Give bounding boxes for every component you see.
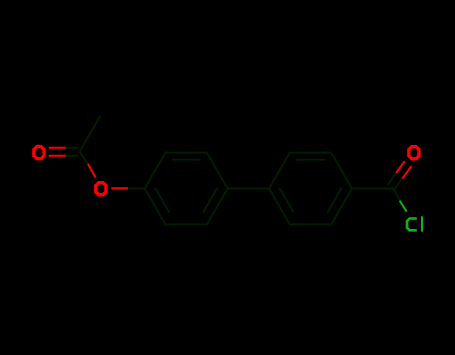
C=O left carbon-side halves [66,147,78,149]
biphenyl bond [228,188,269,190]
bond O(ester)-C1 oxygen half [111,187,128,189]
bond C(methyl)-C(carbonyl left) [80,116,101,152]
ring 1 inner double bond lower-left [155,188,170,213]
atom label O ketone left [34,147,44,159]
bond C(carbonyl left)-O(ester) oxygen half [88,164,96,178]
C=O left oxygen-side halves [49,147,66,149]
ring 2 inner double bond lower-right [327,188,342,213]
atom label Cl : letter l [421,216,423,231]
bond C(carbonyl left)-O(ester) carbon half [80,152,88,164]
bond O(ester)-C1 carbon half [128,187,145,189]
carbon skeleton (dark green) [66,116,402,224]
bond C(carbonyl right)-Cl carbon half [394,189,400,201]
C=O right carbon-side halves [388,173,396,185]
ring 1 inner double bond top [172,159,201,161]
ring 2 inner double bond lower-left [279,188,294,213]
atom label O ester [96,183,106,195]
oxygen bonds (red) [49,148,412,188]
ring 1 inner double bond lower-right [203,188,218,213]
chlorine bond (bright green) [400,201,407,212]
C=O right oxygen-side halves [396,161,405,173]
atom label Cl : letter C [407,219,417,231]
ring 2 outline [269,153,352,225]
bond C4'-C(carbonyl right) [352,188,393,190]
ring 2 inner double bond top [296,159,325,161]
ring 1 outline [145,153,228,225]
atom label O acyl right [409,147,419,159]
